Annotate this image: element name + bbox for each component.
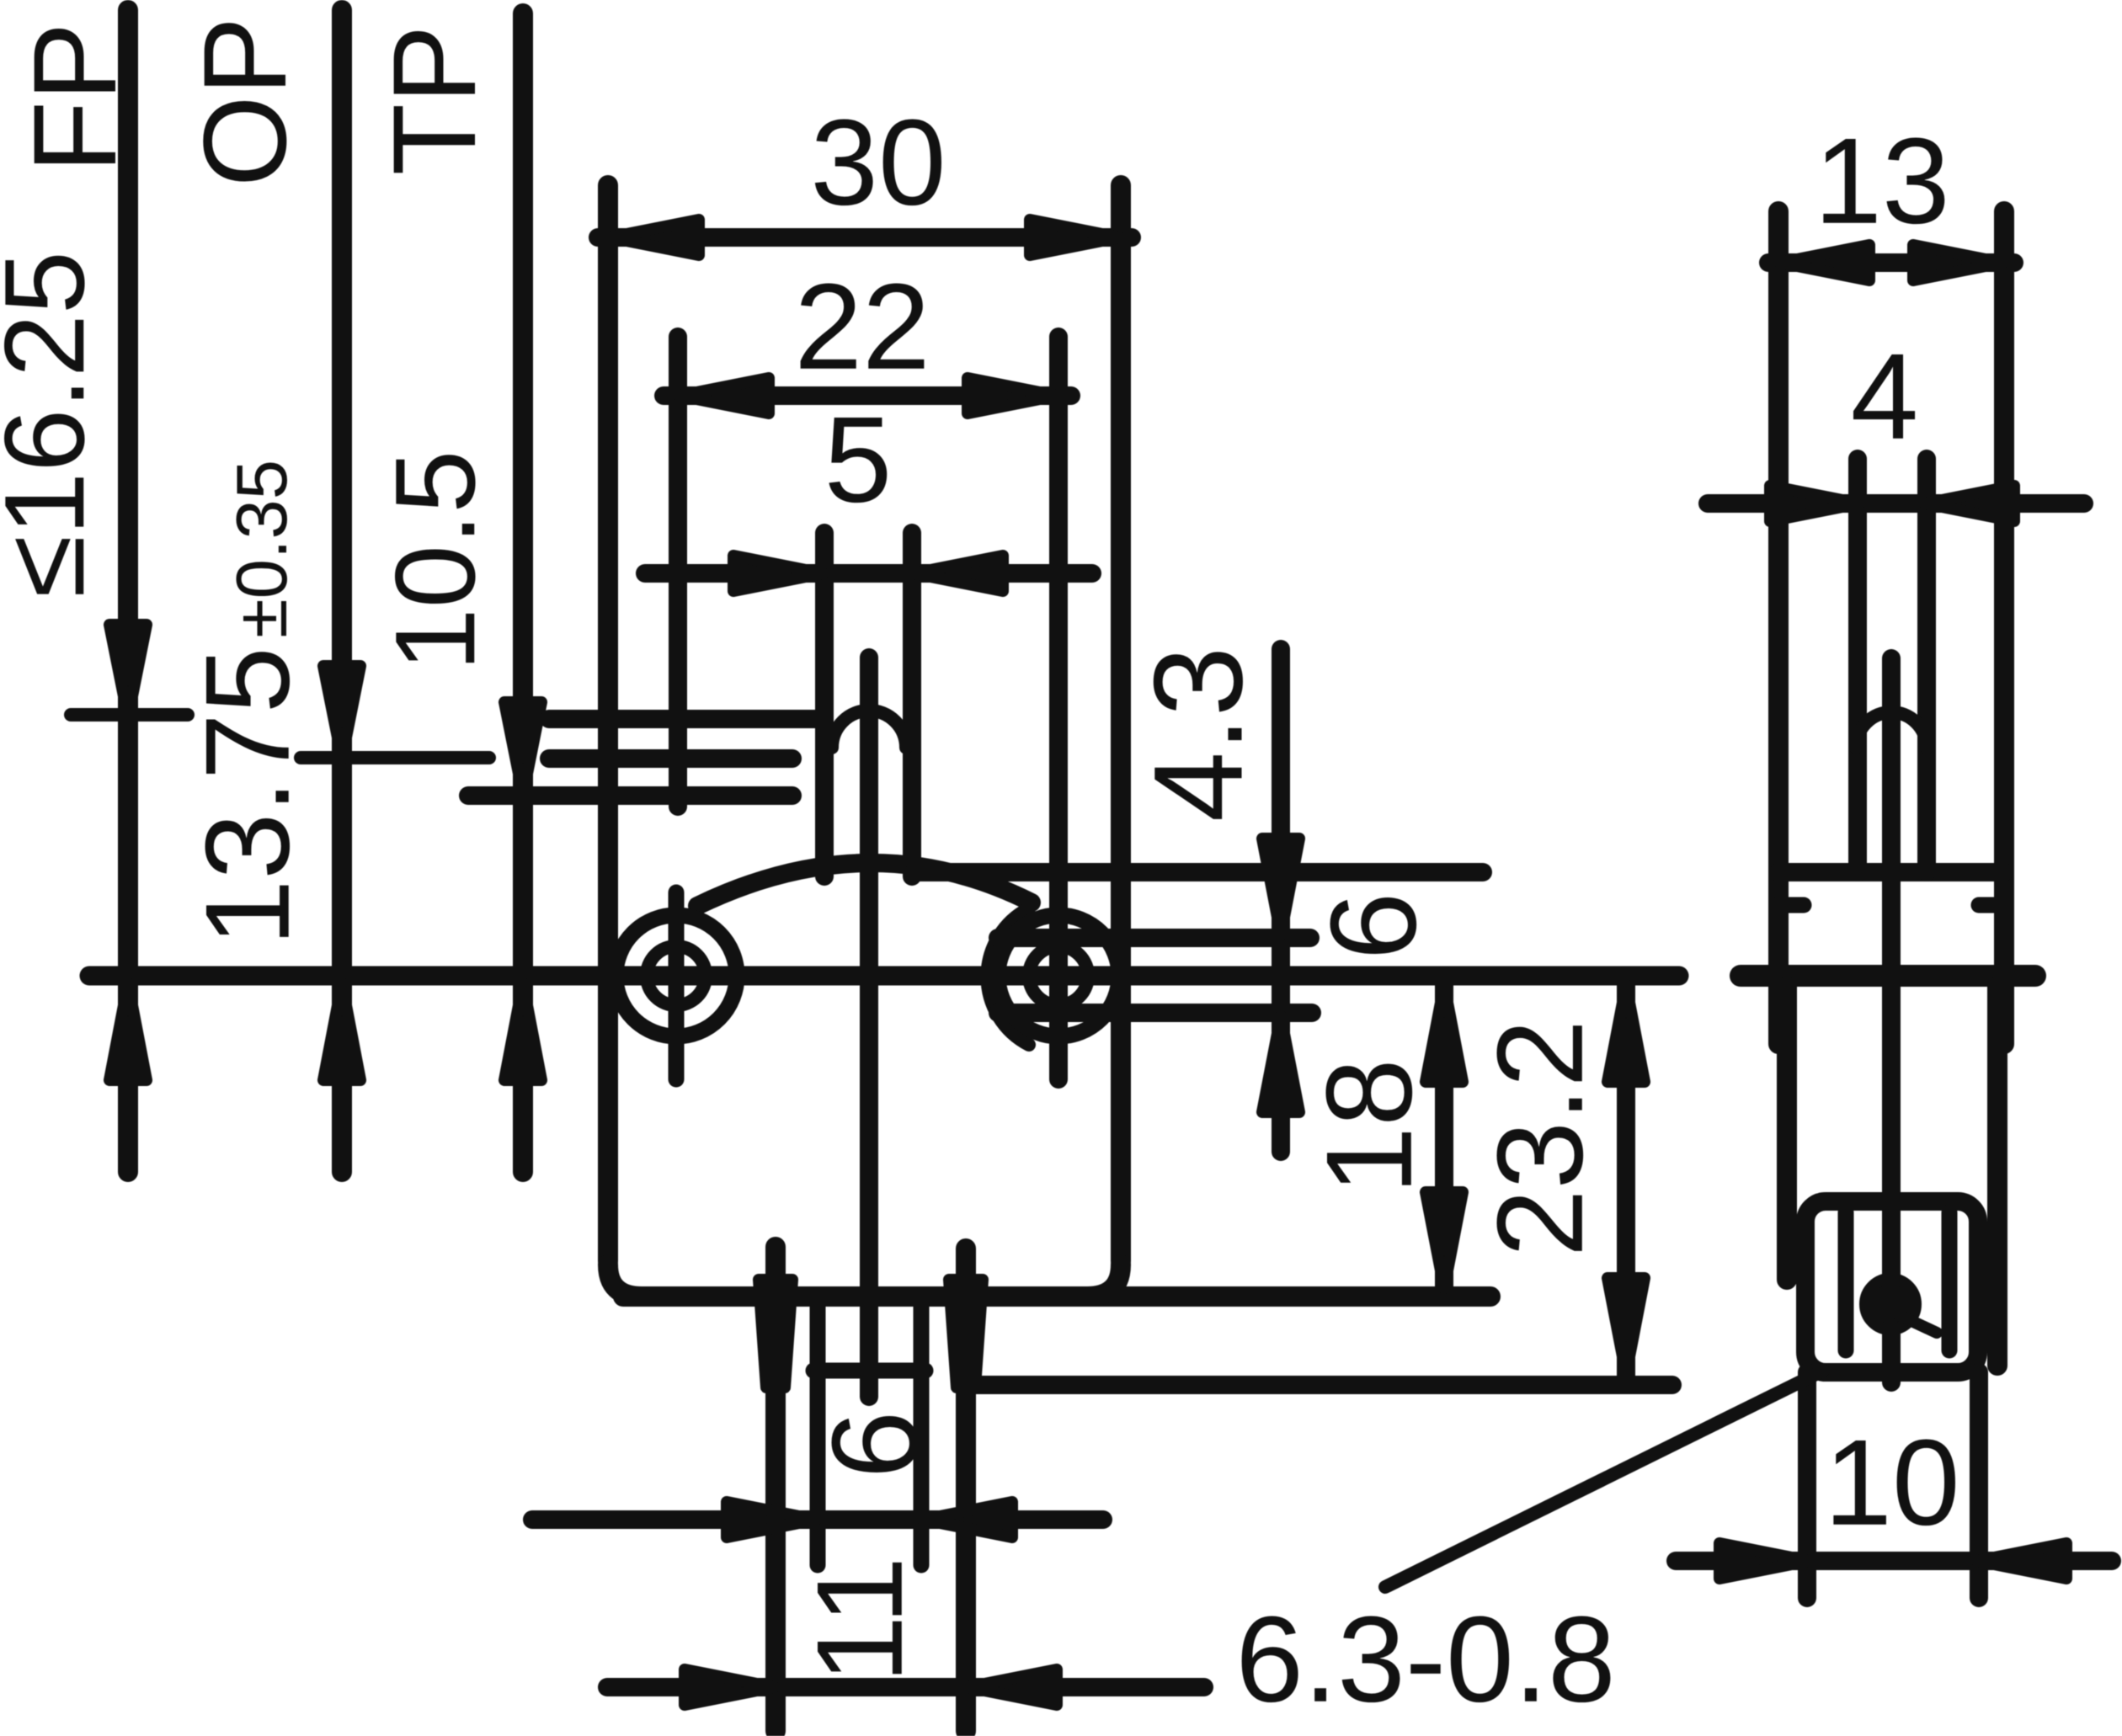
side view terminal box bbox=[1805, 1201, 1978, 1372]
OP down arrow bbox=[323, 666, 360, 759]
dimension line OP (13.75) vertical bbox=[332, 10, 352, 1172]
FP down arrow bbox=[109, 625, 147, 717]
18 dimension line vertical bbox=[1435, 976, 1453, 1297]
body right edge / 30 extension right bbox=[1111, 185, 1131, 1261]
side view lower body sides bbox=[1777, 987, 1797, 1280]
dim line 10 bbox=[1676, 1552, 2112, 1570]
dim line 13 bbox=[1768, 253, 2014, 272]
side view plunger sides (4) bbox=[1848, 459, 1867, 872]
leader line 6.3-0.8 bbox=[1385, 1371, 1823, 1587]
4.3 / 6 dimension line vertical bbox=[1272, 649, 1290, 1152]
11 extension left bbox=[765, 1247, 786, 1731]
dim line 5 bbox=[645, 564, 1092, 583]
right mounting hole target bbox=[998, 915, 1119, 1036]
svg-text:4: 4 bbox=[1851, 328, 1919, 465]
svg-text:18: 18 bbox=[1301, 1058, 1437, 1194]
side view mounting flange bbox=[1741, 965, 2035, 987]
dim line 30 bbox=[598, 228, 1132, 247]
side view pin centerline bbox=[1882, 658, 1901, 1382]
svg-text:4.3: 4.3 bbox=[1128, 647, 1269, 823]
plunger left side / 5 extension left bbox=[815, 533, 834, 876]
TP down arrow bbox=[504, 702, 541, 795]
TP up arrow at datum bbox=[504, 983, 541, 1080]
terminal screw head bbox=[1865, 1279, 1916, 1329]
svg-text:6: 6 bbox=[1305, 892, 1442, 961]
svg-text:10.5: 10.5 bbox=[371, 450, 499, 672]
side view outer right bbox=[1994, 211, 2014, 1044]
OP level line bbox=[549, 749, 792, 768]
body top dome arc bbox=[697, 863, 1032, 906]
line h2 bbox=[998, 929, 1310, 947]
svg-text:13: 13 bbox=[1814, 113, 1949, 249]
body top level line extended right (h1) bbox=[914, 863, 1483, 881]
svg-text:5: 5 bbox=[824, 391, 893, 528]
datum mounting plane line bbox=[89, 967, 1679, 986]
svg-text:TP: TP bbox=[368, 25, 500, 176]
svg-text:±0.35: ±0.35 bbox=[222, 460, 302, 638]
body bottom edge with rounded corners, extended right for 18 dim bbox=[623, 1286, 1490, 1307]
left mounting hole target bbox=[616, 915, 737, 1036]
11 extension right bbox=[956, 1249, 976, 1731]
svg-text:10: 10 bbox=[1824, 1414, 1959, 1551]
dim line 4 bbox=[1708, 494, 2084, 513]
dimension line TP (10.5) vertical bbox=[513, 13, 533, 1172]
dim line 11 bbox=[607, 1678, 1204, 1696]
FP up arrow at datum bbox=[109, 983, 147, 1080]
side view pin dome bbox=[1856, 712, 1927, 748]
svg-text:FP: FP bbox=[8, 23, 141, 173]
terminal crossbar bbox=[813, 1363, 925, 1379]
OP up arrow at datum bbox=[323, 983, 360, 1080]
svg-text:23.2: 23.2 bbox=[1472, 1020, 1608, 1257]
TP level line bbox=[468, 786, 792, 805]
22 extension left bbox=[669, 337, 687, 807]
FP level line bbox=[549, 710, 822, 728]
extra arc left of right hole bbox=[987, 908, 1029, 1045]
side view terminal inner lines bbox=[1838, 1212, 1854, 1350]
10 extension lines bbox=[1798, 1372, 1816, 1598]
plunger right side / 5 extension right bbox=[903, 533, 921, 876]
plunger pin dome bbox=[832, 711, 906, 748]
svg-text:OP: OP bbox=[179, 17, 311, 187]
body left edge / 30 extension left bbox=[598, 185, 618, 1261]
22 extension right / right hole centerline bbox=[1049, 337, 1068, 1079]
line h4 bbox=[998, 1004, 1312, 1022]
svg-text:22: 22 bbox=[794, 258, 930, 395]
terminal right side bbox=[914, 1296, 930, 1565]
svg-text:13.75: 13.75 bbox=[181, 647, 315, 945]
svg-text:6.3-0.8: 6.3-0.8 bbox=[1235, 1591, 1615, 1728]
dim line 6 bottom bbox=[532, 1510, 1103, 1529]
side view internal ledge nubs bbox=[1778, 897, 1804, 913]
23.2 dimension line vertical bbox=[1617, 976, 1635, 1385]
terminal left side bbox=[810, 1296, 826, 1565]
svg-text:6: 6 bbox=[807, 1411, 943, 1479]
dimension line FP (<=16.25) vertical bbox=[118, 10, 138, 1172]
OP tick bbox=[301, 751, 489, 764]
23.2 bottom extension line bbox=[975, 1376, 1672, 1394]
side view body top internal line bbox=[1778, 863, 2004, 881]
FP tick bbox=[71, 708, 188, 722]
svg-text:≤16.25: ≤16.25 bbox=[0, 251, 108, 598]
side view outer left bbox=[1768, 211, 1789, 1044]
svg-text:11: 11 bbox=[792, 1557, 928, 1684]
dim line 22 bbox=[664, 386, 1071, 405]
svg-text:30: 30 bbox=[810, 94, 946, 231]
plunger pin centerline bbox=[860, 658, 878, 1397]
